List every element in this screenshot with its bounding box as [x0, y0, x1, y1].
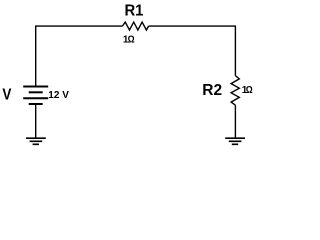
ground (right)	[225, 138, 245, 144]
voltage source V (battery)	[23, 87, 48, 105]
svg-text:R2: R2	[202, 82, 222, 99]
ground (left)	[26, 138, 46, 144]
svg-text:R1: R1	[124, 3, 143, 20]
resistor R2	[231, 76, 239, 106]
wire: battery + terminal up and across to R1 left lead	[36, 26, 123, 86]
wire: battery - terminal to left ground	[35, 104, 37, 138]
wire: R1 right lead across and down to R2 top	[149, 26, 236, 76]
svg-text:12 V: 12 V	[48, 90, 69, 101]
svg-text:V: V	[2, 87, 11, 104]
svg-text:Ω: Ω	[128, 34, 135, 45]
svg-text:Ω: Ω	[246, 85, 253, 96]
resistor R1	[122, 22, 148, 30]
wire: R2 bottom to right ground	[234, 105, 236, 137]
